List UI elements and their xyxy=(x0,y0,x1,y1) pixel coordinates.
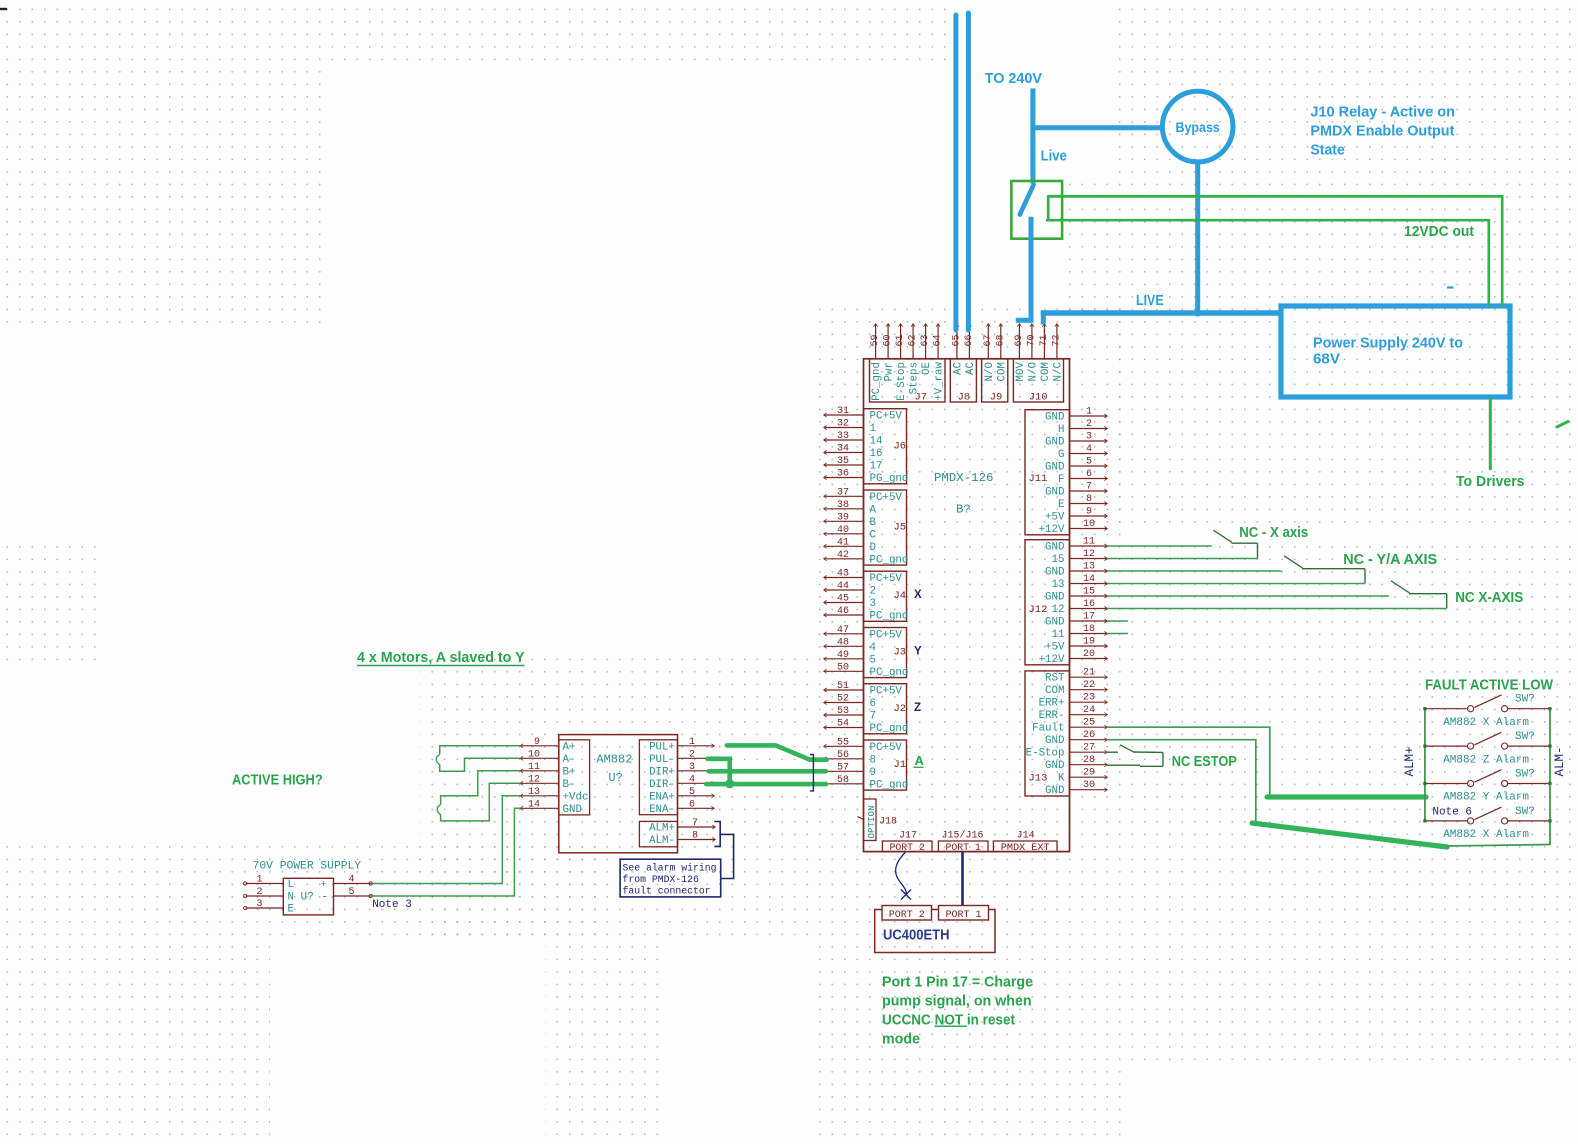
svg-text:Steps: Steps xyxy=(909,362,921,394)
svg-text:8: 8 xyxy=(870,754,876,766)
navy link wire from ALM bracket to note box xyxy=(720,834,733,878)
svg-text:2: 2 xyxy=(870,586,876,598)
wire AC line 1 (240V) to J8 pin 65 xyxy=(953,15,958,330)
svg-text:N: N xyxy=(288,892,294,904)
svg-text:9: 9 xyxy=(534,737,540,748)
NC ESTOP switch (J13 pins 27/28) xyxy=(1106,745,1163,767)
wire twisted pair B+/B- (AM882 pins 11,12) xyxy=(437,771,520,821)
svg-text:15: 15 xyxy=(1083,587,1095,598)
AM882 motor/power pin block (pins 9-14) xyxy=(520,737,589,816)
svg-text:DIR+: DIR+ xyxy=(649,766,675,778)
wire PUL+ (AM882 pin1) to PMDX pin 56 (thick green) xyxy=(727,745,827,759)
wire relay coil link xyxy=(1047,195,1050,220)
svg-text:5: 5 xyxy=(348,887,354,898)
svg-text:GND: GND xyxy=(1045,735,1064,747)
svg-text:66: 66 xyxy=(964,334,975,346)
alarm switch SW? row 1 (AM882 X Alarm) xyxy=(1423,694,1551,729)
stray blue dash xyxy=(1447,286,1454,288)
svg-text:GND: GND xyxy=(1045,437,1064,449)
svg-text:B-: B- xyxy=(563,779,576,791)
svg-text:12: 12 xyxy=(528,774,540,785)
svg-text:J12: J12 xyxy=(1029,604,1048,616)
svg-text:+Vdc: +Vdc xyxy=(563,791,589,803)
svg-text:34: 34 xyxy=(837,444,849,455)
svg-text:ALM+: ALM+ xyxy=(1403,746,1417,776)
connector J7 of PMDX-126 (top) xyxy=(870,324,946,404)
svg-text:35: 35 xyxy=(837,456,849,467)
svg-text:24: 24 xyxy=(1083,705,1095,716)
svg-text:J6: J6 xyxy=(894,440,907,452)
svg-text:1: 1 xyxy=(1086,407,1092,418)
svg-text:+5V: +5V xyxy=(1045,512,1065,524)
NC - Y/A axis switch (J12 pins 13/14) xyxy=(1107,556,1365,584)
svg-text:X: X xyxy=(914,589,922,601)
svg-text:52: 52 xyxy=(837,694,849,705)
svg-text:PC_gnd: PC_gnd xyxy=(870,723,909,735)
svg-text:36: 36 xyxy=(837,469,849,480)
svg-text:GND: GND xyxy=(1045,462,1064,474)
svg-text:AM882 Y Alarm: AM882 Y Alarm xyxy=(1443,792,1529,804)
alarm switch SW? row 4 (AM882 X Alarm) xyxy=(1423,806,1551,841)
svg-text:GND: GND xyxy=(1045,412,1064,424)
svg-text:31: 31 xyxy=(837,406,849,417)
svg-text:SW?: SW? xyxy=(1515,694,1535,706)
svg-text:J11: J11 xyxy=(1029,473,1048,485)
connector J10 of PMDX-126 (top) xyxy=(1013,324,1064,404)
svg-text:J1: J1 xyxy=(894,759,907,771)
svg-text:4: 4 xyxy=(348,875,354,886)
axis label A for J1 xyxy=(914,753,925,768)
NC X-axis switch (J12 pins 15/16) xyxy=(1107,581,1447,609)
svg-text:6: 6 xyxy=(1086,469,1092,480)
svg-text:18: 18 xyxy=(1083,624,1095,635)
svg-text:NC X-AXIS: NC X-AXIS xyxy=(1455,590,1523,606)
svg-text:COM: COM xyxy=(1045,685,1064,697)
svg-text:H: H xyxy=(1058,424,1064,436)
navy wire PMDX PORT1 to UC400 PORT1 xyxy=(961,852,964,906)
svg-text:53: 53 xyxy=(837,706,849,717)
svg-text:12: 12 xyxy=(1083,549,1095,560)
svg-text:33: 33 xyxy=(837,431,849,442)
svg-text:4: 4 xyxy=(870,642,876,654)
svg-text:A+: A+ xyxy=(563,741,576,753)
svg-text:58: 58 xyxy=(837,775,849,786)
connector J8 of PMDX-126 (top) xyxy=(950,324,977,404)
svg-text:N/O: N/O xyxy=(1028,362,1040,381)
svg-text:32: 32 xyxy=(837,419,849,430)
svg-text:70: 70 xyxy=(1026,334,1037,346)
axis label Y for J3 xyxy=(914,646,922,658)
svg-text:fault connector: fault connector xyxy=(623,886,711,897)
svg-text:PMDX Enable Output: PMDX Enable Output xyxy=(1310,124,1454,140)
svg-text:1: 1 xyxy=(256,875,262,886)
svg-text:7: 7 xyxy=(1086,482,1092,493)
svg-text:8: 8 xyxy=(1086,494,1092,505)
wire GND from 70V supply - to AM882 pin 14 xyxy=(370,808,520,896)
svg-text:37: 37 xyxy=(837,487,849,498)
svg-text:11: 11 xyxy=(1052,629,1065,641)
connector J18 OPTION box xyxy=(858,799,898,841)
svg-text:PUL+: PUL+ xyxy=(649,741,675,753)
connector J13 of PMDX-126 (right) xyxy=(1025,668,1107,798)
svg-text:5: 5 xyxy=(1086,457,1092,468)
connector J3 of PMDX-126 (left) xyxy=(824,625,909,679)
connector J5 of PMDX-126 (left) xyxy=(824,487,909,566)
svg-text:J5: J5 xyxy=(894,522,907,534)
svg-text:UCCNC NOT in reset: UCCNC NOT in reset xyxy=(882,1013,1015,1029)
svg-text:Port 1 Pin 17 = Charge: Port 1 Pin 17 = Charge xyxy=(882,974,1033,990)
svg-text:68: 68 xyxy=(995,334,1006,346)
svg-text:6: 6 xyxy=(870,698,876,710)
svg-text:ALM-: ALM- xyxy=(649,835,675,847)
svg-text:AM882: AM882 xyxy=(596,753,632,767)
alarm ladder ALM+ left bus xyxy=(1424,709,1426,821)
svg-text:COM: COM xyxy=(996,362,1008,381)
svg-text:SW?: SW? xyxy=(1515,806,1535,818)
note J10 Relay - Active on PMDX Enable Output State xyxy=(1310,104,1455,158)
alarm switch SW? row 3 (AM882 Y Alarm) xyxy=(1423,769,1551,804)
stepper driver U? AM882 outline xyxy=(559,735,678,853)
svg-text:N/O: N/O xyxy=(984,362,996,381)
svg-text:3: 3 xyxy=(870,598,876,610)
wire twisted pair A+/A- (AM882 pins 9,10) xyxy=(436,746,520,772)
svg-text:59: 59 xyxy=(870,334,881,346)
connector J11 of PMDX-126 (right) xyxy=(1025,407,1107,537)
svg-text:PMDX-126: PMDX-126 xyxy=(934,471,994,485)
wire Fault (pin 25) to alarm ladder ALM+ xyxy=(1107,727,1426,797)
navy bracket at AM882 ALM pins xyxy=(714,822,720,847)
svg-text:63: 63 xyxy=(920,334,931,346)
svg-text:UC400ETH: UC400ETH xyxy=(883,928,950,944)
svg-text:J3: J3 xyxy=(894,647,907,659)
wire PUL-/DIR- common (AM882 pins 2,4) to PMDX pin 58 (thick green) xyxy=(706,759,826,789)
svg-text:J15/J16: J15/J16 xyxy=(942,829,984,841)
wire stub J12 pin 18 xyxy=(1107,633,1128,635)
wire 12VDC out lower from relay xyxy=(1046,220,1489,306)
svg-text:14: 14 xyxy=(870,436,883,448)
AM882 signal pin block (pins 1-6) xyxy=(639,737,714,816)
svg-text:from PMDX-126: from PMDX-126 xyxy=(623,874,700,885)
svg-text:25: 25 xyxy=(1083,718,1095,729)
svg-text:J13: J13 xyxy=(1029,773,1048,785)
svg-text:DIR-: DIR- xyxy=(649,779,675,791)
svg-text:J10: J10 xyxy=(1029,391,1048,403)
svg-text:46: 46 xyxy=(837,606,849,617)
svg-text:9: 9 xyxy=(870,767,876,779)
svg-text:J8: J8 xyxy=(958,391,971,403)
connector J2 of PMDX-126 (left) xyxy=(824,681,909,735)
svg-text:23: 23 xyxy=(1083,693,1095,704)
svg-text:11: 11 xyxy=(528,762,540,773)
IC U-B? PMDX-126 main outline xyxy=(864,359,1070,852)
svg-text:44: 44 xyxy=(837,581,849,592)
svg-text:6: 6 xyxy=(689,799,695,810)
svg-text:mode: mode xyxy=(882,1032,920,1048)
svg-text:3: 3 xyxy=(256,899,262,910)
svg-text:57: 57 xyxy=(837,762,849,773)
connector J17 PORT 2 xyxy=(882,830,932,853)
svg-text:FAULT ACTIVE LOW: FAULT ACTIVE LOW xyxy=(1425,677,1554,694)
svg-text:56: 56 xyxy=(837,750,849,761)
svg-text:J2: J2 xyxy=(894,703,907,715)
svg-text:13: 13 xyxy=(1083,562,1095,573)
connector J15/J16 PORT 1 xyxy=(938,829,988,853)
svg-text:47: 47 xyxy=(837,625,849,636)
svg-text:69: 69 xyxy=(1014,334,1025,346)
wire GND (pin 26) to alarm ladder ALM- xyxy=(1107,740,1550,847)
svg-text:OE: OE xyxy=(921,362,933,375)
svg-text:B?: B? xyxy=(956,503,971,517)
svg-text:4: 4 xyxy=(1086,444,1092,455)
wire branch to Bypass lamp xyxy=(1033,125,1162,130)
svg-text:AM882 Z Alarm: AM882 Z Alarm xyxy=(1443,754,1529,766)
alarm ladder ALM- right bus xyxy=(1549,709,1551,845)
connector J9 of PMDX-126 (top) xyxy=(982,324,1009,404)
svg-text:U?: U? xyxy=(301,892,314,904)
bypass lamp circle xyxy=(1162,91,1233,162)
svg-text:To Drivers: To Drivers xyxy=(1456,474,1525,490)
svg-text:U?: U? xyxy=(608,771,622,785)
wire +Vdc from 70V supply + to AM882 pin 13 xyxy=(370,796,520,884)
svg-text:See alarm wiring: See alarm wiring xyxy=(623,863,717,874)
svg-text:J14: J14 xyxy=(1017,830,1035,841)
svg-text:G: G xyxy=(1058,449,1064,461)
svg-text:J9: J9 xyxy=(990,391,1003,403)
svg-text:4: 4 xyxy=(689,774,695,785)
relay switch blade (blue) xyxy=(1020,185,1034,215)
svg-text:5: 5 xyxy=(870,654,876,666)
svg-text:26: 26 xyxy=(1083,730,1095,741)
svg-text:J4: J4 xyxy=(894,590,907,602)
svg-text:B: B xyxy=(870,517,877,529)
svg-text:50: 50 xyxy=(837,662,849,673)
svg-text:16: 16 xyxy=(870,448,883,460)
svg-text:40: 40 xyxy=(837,525,849,536)
svg-text:64: 64 xyxy=(933,334,944,346)
svg-text:10: 10 xyxy=(528,749,540,760)
stray green tick mark xyxy=(1557,422,1568,428)
svg-text:68V: 68V xyxy=(1313,352,1340,368)
svg-text:11: 11 xyxy=(1083,537,1095,548)
svg-text:Fault: Fault xyxy=(1032,723,1064,735)
svg-text:J10 Relay - Active on: J10 Relay - Active on xyxy=(1310,104,1455,120)
svg-text:GND: GND xyxy=(1045,617,1064,629)
wire Live feed down to relay xyxy=(1030,88,1035,183)
svg-text:67: 67 xyxy=(983,334,994,346)
svg-text:39: 39 xyxy=(837,512,849,523)
svg-text:B+: B+ xyxy=(563,766,576,778)
svg-text:ACTIVE HIGH?: ACTIVE HIGH? xyxy=(232,772,323,788)
svg-text:14: 14 xyxy=(1083,574,1095,585)
svg-text:30: 30 xyxy=(1083,780,1095,791)
svg-text:GND: GND xyxy=(1045,760,1064,772)
svg-text:PC_gnd: PC_gnd xyxy=(871,362,883,401)
svg-text:NC ESTOP: NC ESTOP xyxy=(1172,753,1237,770)
svg-text:AM882 X Alarm: AM882 X Alarm xyxy=(1443,829,1529,841)
svg-text:SW?: SW? xyxy=(1515,769,1535,781)
svg-text:PC+5V: PC+5V xyxy=(870,492,903,504)
svg-text:72: 72 xyxy=(1051,334,1062,346)
svg-text:61: 61 xyxy=(895,334,906,346)
svg-text:C: C xyxy=(870,529,877,541)
svg-text:PC+5V: PC+5V xyxy=(870,411,903,423)
svg-text:PORT 2: PORT 2 xyxy=(890,842,925,853)
svg-text:20: 20 xyxy=(1083,649,1095,660)
svg-text:J18: J18 xyxy=(879,817,897,828)
svg-text:1: 1 xyxy=(689,737,695,748)
svg-text:14: 14 xyxy=(528,799,540,810)
svg-text:E: E xyxy=(1058,499,1064,511)
svg-text:E: E xyxy=(288,904,294,916)
svg-text:F: F xyxy=(1058,474,1064,486)
power supply PS1 240V to 68V box xyxy=(1281,306,1510,397)
svg-text:41: 41 xyxy=(837,537,849,548)
svg-text:L: L xyxy=(288,879,294,891)
UC400ETH controller box xyxy=(875,906,995,953)
wire AC line 2 (240V) to J8 pin 66 xyxy=(966,13,971,330)
svg-text:12VDC out: 12VDC out xyxy=(1404,224,1474,240)
navy bracket at PMDX J1 pins xyxy=(810,755,813,791)
wire 12VDC out upper from relay xyxy=(1048,196,1502,306)
svg-text:22: 22 xyxy=(1083,680,1095,691)
svg-text:13: 13 xyxy=(528,787,540,798)
svg-text:PMDX EXT: PMDX EXT xyxy=(1001,843,1050,854)
connector J4 of PMDX-126 (left) xyxy=(824,569,909,623)
svg-text:ENA-: ENA- xyxy=(649,804,675,816)
svg-text:48: 48 xyxy=(837,637,849,648)
svg-text:J17: J17 xyxy=(899,830,917,841)
note box: See alarm wiring from PMDX-126 fault connector xyxy=(620,859,721,897)
svg-text:45: 45 xyxy=(837,594,849,605)
svg-text:AC: AC xyxy=(965,361,977,374)
svg-text:Live: Live xyxy=(1041,149,1067,165)
svg-text:ALM+: ALM+ xyxy=(649,823,675,835)
svg-text:GND: GND xyxy=(563,804,582,816)
svg-text:PG_gnd: PG_gnd xyxy=(870,473,909,485)
svg-text:ERR+: ERR+ xyxy=(1039,698,1065,710)
svg-text:49: 49 xyxy=(837,650,849,661)
svg-text:D: D xyxy=(870,542,876,554)
svg-text:PORT 1: PORT 1 xyxy=(946,842,981,853)
svg-text:4 x Motors, A slaved to Y: 4 x Motors, A slaved to Y xyxy=(357,650,525,666)
wire from Bypass lamp down to LIVE bus xyxy=(1195,162,1200,316)
power supply U? 70V box xyxy=(244,875,373,916)
svg-text:GND: GND xyxy=(1045,567,1064,579)
svg-text:A-: A- xyxy=(563,754,576,766)
svg-text:15: 15 xyxy=(1052,554,1065,566)
connector J6 of PMDX-126 (left) xyxy=(824,406,909,485)
connector J12 of PMDX-126 (right) xyxy=(1025,537,1107,667)
svg-text:PUL-: PUL- xyxy=(649,754,675,766)
svg-text:PC+5V: PC+5V xyxy=(870,573,903,585)
svg-text:AM882 X Alarm: AM882 X Alarm xyxy=(1443,717,1529,729)
svg-text:GND: GND xyxy=(1045,487,1064,499)
svg-text:Note 3: Note 3 xyxy=(372,899,412,911)
label 4 x Motors, A slaved to Y xyxy=(357,650,525,666)
svg-text:GND: GND xyxy=(1045,592,1064,604)
alarm switch SW? row 2 (AM882 Z Alarm) xyxy=(1423,731,1551,766)
svg-text:PC_gnd: PC_gnd xyxy=(870,667,909,679)
svg-text:PC+5V: PC+5V xyxy=(870,629,903,641)
svg-text:12: 12 xyxy=(1052,604,1065,616)
svg-text:29: 29 xyxy=(1083,768,1095,779)
svg-text:A: A xyxy=(870,504,877,516)
svg-text:+5V: +5V xyxy=(1045,642,1065,654)
svg-text:+V_raw: +V_raw xyxy=(934,361,946,400)
svg-text:LIVE: LIVE xyxy=(1136,293,1164,309)
svg-text:Y: Y xyxy=(914,646,922,658)
wire stub J12 pin 17 xyxy=(1107,620,1128,622)
svg-text:PC_gnd: PC_gnd xyxy=(870,554,909,566)
svg-text:OPTION: OPTION xyxy=(866,805,877,838)
svg-text:65: 65 xyxy=(951,334,962,346)
svg-text:PC+5V: PC+5V xyxy=(870,742,903,754)
svg-text:COM: COM xyxy=(1040,362,1052,381)
svg-text:17: 17 xyxy=(870,461,883,473)
relay K1 coil box xyxy=(1011,181,1062,239)
svg-text:51: 51 xyxy=(837,681,849,692)
svg-text:+12V: +12V xyxy=(1039,654,1065,666)
NC - X axis switch (J12 pins 11/12) xyxy=(1107,530,1258,558)
svg-text:AC: AC xyxy=(953,361,965,374)
svg-text:17: 17 xyxy=(1083,612,1095,623)
svg-text:SW?: SW? xyxy=(1515,731,1535,743)
svg-text:MOV: MOV xyxy=(1015,361,1027,381)
svg-text:9: 9 xyxy=(1086,507,1092,518)
svg-text:N/C: N/C xyxy=(1053,361,1065,381)
svg-text:NC - Y/A AXIS: NC - Y/A AXIS xyxy=(1343,552,1437,568)
svg-text:1: 1 xyxy=(870,423,876,435)
svg-text:60: 60 xyxy=(883,334,894,346)
svg-text:43: 43 xyxy=(837,569,849,580)
svg-text:7: 7 xyxy=(870,711,876,723)
connector J14 PMDX EXT xyxy=(993,830,1057,854)
svg-text:54: 54 xyxy=(837,719,849,730)
axis label Z for J2 xyxy=(914,702,921,714)
wire To Drivers from power supply xyxy=(1489,397,1492,470)
svg-text:E-Stop: E-Stop xyxy=(1026,748,1065,760)
svg-text:13: 13 xyxy=(1052,579,1065,591)
svg-text:pump signal, on when: pump signal, on when xyxy=(882,993,1032,1009)
svg-text:TO 240V: TO 240V xyxy=(985,71,1043,87)
svg-text:2: 2 xyxy=(1086,419,1092,430)
svg-text:Note 6: Note 6 xyxy=(1432,807,1472,819)
svg-text:21: 21 xyxy=(1083,668,1095,679)
svg-text:-: - xyxy=(321,890,328,904)
svg-text:10: 10 xyxy=(1083,519,1095,530)
crossed-out wire from PMDX PORT2 xyxy=(896,852,911,900)
svg-text:Power Supply 240V to: Power Supply 240V to xyxy=(1313,335,1463,351)
svg-text:E-Stop: E-Stop xyxy=(896,362,908,401)
svg-text:ERR-: ERR- xyxy=(1039,710,1065,722)
svg-text:3: 3 xyxy=(689,762,695,773)
LIVE bus wire to power supply, tap at J10 pin 71 xyxy=(1041,311,1283,325)
svg-text:2: 2 xyxy=(256,887,262,898)
wire DIR+ (AM882 pin3) to PMDX pin 57 (thick green) xyxy=(709,769,826,774)
svg-text:PORT 1: PORT 1 xyxy=(945,910,981,921)
svg-text:K: K xyxy=(1058,773,1065,785)
svg-text:38: 38 xyxy=(837,500,849,511)
svg-text:GND: GND xyxy=(1045,542,1064,554)
svg-text:70V POWER SUPPLY: 70V POWER SUPPLY xyxy=(253,860,362,872)
svg-text:8: 8 xyxy=(692,831,698,842)
connector J1 of PMDX-126 (left) xyxy=(824,737,909,791)
svg-text:7: 7 xyxy=(692,818,698,829)
svg-text:State: State xyxy=(1310,143,1344,159)
svg-text:16: 16 xyxy=(1083,599,1095,610)
svg-text:PC_gnd: PC_gnd xyxy=(870,779,909,791)
svg-text:ENA+: ENA+ xyxy=(649,791,675,803)
